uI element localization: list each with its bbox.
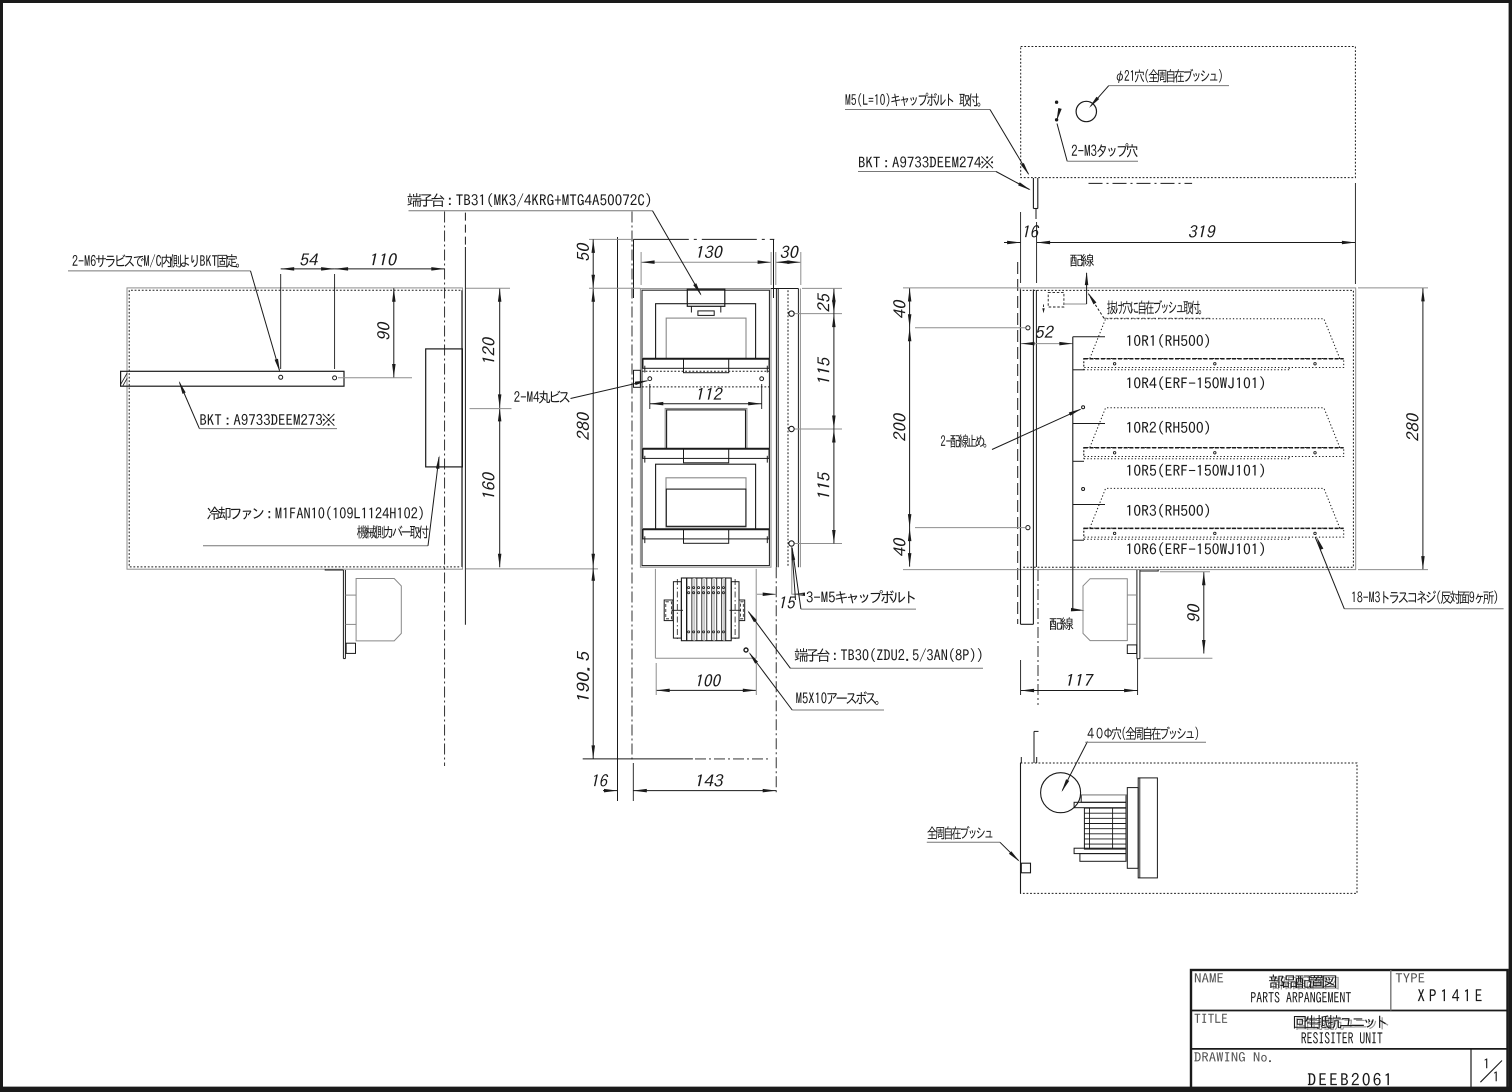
BKT bar hatching xyxy=(121,373,127,384)
M4 screw right xyxy=(760,377,764,381)
fan large plate rear view xyxy=(1138,778,1157,878)
leader TB30 xyxy=(749,612,791,669)
leader cooling fan xyxy=(203,545,428,547)
leader BKT273 xyxy=(199,428,337,430)
TB30 terminal screws bottom xyxy=(688,631,690,633)
title block name-type divider xyxy=(1390,970,1392,1011)
wiring channel stubs xyxy=(1073,336,1105,338)
title block row line 2 xyxy=(1191,1048,1508,1050)
side view unit outline dotted xyxy=(1023,290,1354,567)
title block outer frame xyxy=(1191,970,1508,1088)
dim 120 vertical xyxy=(499,288,501,408)
earth boss M5 xyxy=(744,648,748,652)
label BKT A9733DEEM274 xyxy=(859,156,993,168)
fan motor body right view xyxy=(1083,579,1127,641)
lower duct gray box xyxy=(654,569,656,658)
BKT bracket hook below cover xyxy=(1032,178,1034,209)
dim 52 xyxy=(1021,343,1073,345)
fan terminal box right view xyxy=(1127,645,1136,654)
TB30 right end plate xyxy=(731,582,739,638)
40phi hole circle xyxy=(1041,773,1081,813)
extension lines 54-110 xyxy=(280,274,282,369)
label TB31 xyxy=(407,193,650,207)
mounting plate side xyxy=(1020,290,1022,625)
label bush xyxy=(927,826,992,840)
dim 90 right view xyxy=(1203,572,1205,654)
dim 143 bottom xyxy=(633,790,776,792)
M4 screw left xyxy=(648,377,652,381)
phi21 hole xyxy=(1076,101,1096,121)
bracket line above xyxy=(1033,731,1035,763)
machine floor line xyxy=(583,758,693,760)
wire path to top hole xyxy=(1064,303,1087,305)
dim 16 bottom xyxy=(603,790,618,792)
BKT mounting bar A9733DEEM273 xyxy=(121,371,344,386)
fan bracket step below unit xyxy=(325,568,343,571)
top cover plan view outline xyxy=(1021,47,1356,178)
bracket screws row 3 xyxy=(1113,532,1115,534)
title name kanji xyxy=(1271,976,1338,989)
machine opening top edge xyxy=(589,238,634,240)
label 10R5（ERF-150WJ101） xyxy=(1127,464,1264,477)
machine opening right edge xyxy=(773,239,775,298)
resistor 10R2 outline xyxy=(1090,408,1340,448)
leader 2-M6 xyxy=(68,270,251,272)
terminal block TB30 body xyxy=(681,578,731,641)
wire tie diamond 1 xyxy=(1082,406,1085,409)
fan motor tabs xyxy=(345,594,356,596)
label 10R2（RH500） xyxy=(1127,421,1209,434)
fan centerline dash-dot xyxy=(444,212,446,767)
label 10R1（RH500） xyxy=(1127,334,1209,347)
label TITLE xyxy=(1195,1014,1228,1023)
plate hole top xyxy=(1026,326,1030,330)
label 18-M3 truss screws xyxy=(1352,591,1497,605)
dim chain 25-115-115 xyxy=(833,288,835,543)
label 2-M3 tap hole xyxy=(1072,143,1138,157)
mounting rail 2 xyxy=(643,448,769,450)
fan top flange bars xyxy=(1081,795,1126,802)
fan terminal box xyxy=(346,643,355,653)
extension line 143 left xyxy=(632,763,634,801)
wire dashed box top xyxy=(1048,292,1064,307)
label 10R3（RH500） xyxy=(1127,504,1209,517)
label wiring bottom xyxy=(1050,617,1074,630)
drawing number DEEB2061 xyxy=(1308,1073,1389,1086)
leader 2-M4 xyxy=(571,381,648,399)
label phi21 hole bush xyxy=(1117,69,1222,83)
dim 112 xyxy=(650,403,762,405)
bracket screws row 1 xyxy=(1113,363,1115,365)
dim 130 xyxy=(641,261,771,263)
resistor 10R3 bracket bar xyxy=(1084,527,1344,529)
label 2-M4 screw xyxy=(514,391,569,404)
label TYPE xyxy=(1396,973,1425,982)
label 2-M6 screws fix BKT xyxy=(72,254,239,268)
label 40phi hole xyxy=(1088,726,1199,740)
bottom plan view outline xyxy=(1021,763,1358,893)
leader wire stop xyxy=(992,409,1081,449)
dim 319 shared xyxy=(1037,242,1356,244)
leader bush hole dotted xyxy=(1089,294,1105,318)
fan mid plate rear view xyxy=(1127,788,1138,869)
label bush hole note xyxy=(1107,300,1201,314)
title kanji xyxy=(1296,1017,1388,1031)
leader phi21 label xyxy=(1091,86,1109,107)
dim 30 xyxy=(776,261,801,263)
hidden edge below cover xyxy=(1089,182,1193,184)
side view unit outline gray xyxy=(1020,288,1355,570)
extension lines shared dims xyxy=(1020,212,1022,283)
label BKT A9733DEEM273 xyxy=(200,414,334,426)
M3 tap hole dot 2 xyxy=(1055,119,1057,121)
page 1/1 xyxy=(1485,1058,1488,1068)
left bracket tab xyxy=(634,370,641,387)
fan bottom flange bars xyxy=(1074,848,1126,853)
TB30 left mount tab xyxy=(664,600,673,621)
wire small dashed hook xyxy=(1043,305,1045,313)
cap bolt circle 1 xyxy=(789,311,794,316)
label DRAWING No xyxy=(1194,1052,1271,1062)
fan bracket step right view xyxy=(1140,570,1158,571)
plate hole bottom xyxy=(1026,526,1030,530)
page border frame xyxy=(0,0,1512,3)
leader 3-M5 xyxy=(792,548,801,609)
resistor 10R3 outline xyxy=(1090,488,1340,528)
dim 16 shared xyxy=(1004,242,1021,244)
TB30 terminal screws top xyxy=(688,587,690,589)
leader 18-M3 xyxy=(1315,537,1344,609)
left side view unit outline gray xyxy=(127,288,462,569)
dim 54 xyxy=(281,268,335,270)
terminal block TB31 xyxy=(687,289,725,306)
wiring channel vertical line xyxy=(1072,337,1074,610)
bush rectangle xyxy=(1021,863,1030,873)
dim 280 right xyxy=(1422,288,1424,570)
resistor 10R2 bracket bar xyxy=(1084,447,1344,449)
wall plate left edge line xyxy=(617,237,619,801)
title block pages divider xyxy=(1470,1049,1472,1088)
panel top extension to 280 dim xyxy=(589,287,640,289)
leader bush xyxy=(1000,842,1019,860)
BKT screw hole right xyxy=(333,376,337,380)
fan bracket plate right view xyxy=(1136,570,1138,659)
label M5 cap bolt xyxy=(846,93,981,107)
fan coil stack rear view xyxy=(1084,808,1126,849)
title english RESISITER UNIT xyxy=(1302,1032,1383,1043)
fan bracket plate xyxy=(342,570,344,659)
flange dash-dot below xyxy=(775,567,777,793)
middle resistor assembly front xyxy=(665,409,747,449)
machine opening left edge xyxy=(633,239,635,298)
lower resistor assembly front xyxy=(656,464,756,529)
mounting rail 3 xyxy=(643,528,769,530)
leader 2-M3 tap label xyxy=(1057,124,1067,162)
bracket screws row 2 xyxy=(1113,452,1115,454)
label 3-M5 cap bolt xyxy=(807,590,915,603)
label 2-wire stop xyxy=(941,434,986,447)
wire arrow into fan xyxy=(1073,609,1080,611)
label NAME xyxy=(1195,973,1223,982)
extension lines 120-160 xyxy=(466,287,510,289)
machine wall hidden line xyxy=(1017,262,1019,624)
leader M5x10 xyxy=(750,654,792,711)
machine wall line xyxy=(464,213,466,247)
type value XP141E xyxy=(1418,989,1482,1001)
right flange lines xyxy=(775,289,777,568)
plate centerline below xyxy=(1037,570,1039,705)
leader M5 cap bolt xyxy=(845,109,990,111)
label 10R6（ERF-150WJ101） xyxy=(1127,542,1264,555)
cooling fan rectangle xyxy=(426,349,463,467)
label hairline wiring top xyxy=(1070,254,1094,267)
fan motor tabs right view xyxy=(1127,594,1137,596)
TB30 right mount tab xyxy=(739,600,745,621)
leader TB31 xyxy=(653,211,701,295)
dim 110 xyxy=(335,268,445,270)
plate bend dash-dot centerline xyxy=(631,212,633,763)
dim 15 xyxy=(757,593,776,595)
front panel outline black xyxy=(642,290,769,565)
label machine side cover xyxy=(357,525,428,538)
dim 160 vertical xyxy=(499,408,501,567)
unit right edge at wall xyxy=(461,290,463,567)
label TB30 xyxy=(795,648,982,662)
dim 90 vertical xyxy=(393,288,395,377)
M3 tap hole dot 1 xyxy=(1055,101,1057,103)
title block row line 1 xyxy=(1191,1010,1508,1012)
left side view unit outline dotted xyxy=(129,290,460,567)
label M5x10 earth boss xyxy=(796,691,878,705)
dim chain 50-280-190.5 xyxy=(592,239,594,759)
leader BKT274 xyxy=(858,171,996,173)
TB30 left end plate xyxy=(673,582,681,638)
title name english xyxy=(1251,992,1351,1003)
front panel outline gray xyxy=(640,289,771,568)
label 10R4（ERF-150WJ101） xyxy=(1127,376,1264,389)
extension line 90 bottom xyxy=(338,377,412,379)
dim 100 xyxy=(656,689,756,691)
label cooling fan M1FAN10 xyxy=(207,506,422,520)
cap bolt circle 3 xyxy=(789,541,794,546)
dim chain 40-200-40 xyxy=(909,288,911,567)
mounting rail 1 xyxy=(643,358,769,360)
wire tie diamond 2 xyxy=(1082,488,1085,491)
hidden slot dotted lines xyxy=(642,370,769,372)
BKT screw hole left xyxy=(279,375,283,379)
resistor 10R1 bracket bar xyxy=(1084,358,1344,360)
cap bolt circle 2 xyxy=(789,426,794,431)
upper resistor assembly front xyxy=(656,304,756,359)
fan motor body xyxy=(356,579,401,641)
dim 40-200 extensions xyxy=(903,287,1020,289)
leader 40phi xyxy=(1062,742,1087,791)
resistor 10R1 outline xyxy=(1090,319,1340,359)
dim 117 xyxy=(1021,690,1138,692)
